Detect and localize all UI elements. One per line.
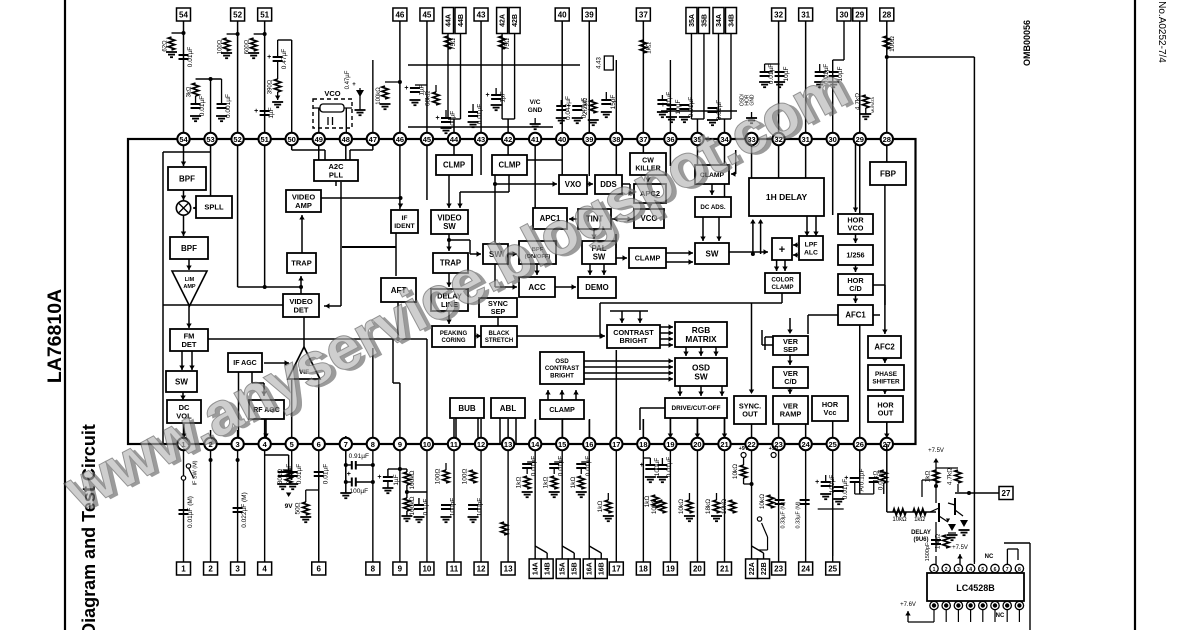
svg-text:VIDEO: VIDEO — [437, 213, 461, 222]
svg-text:PHASE: PHASE — [875, 371, 898, 378]
svg-text:0.022µF (M): 0.022µF (M) — [241, 492, 248, 528]
svg-text:SEP: SEP — [783, 345, 798, 354]
svg-text:100Ω: 100Ω — [218, 39, 224, 54]
svg-text:SHIFTER: SHIFTER — [872, 378, 900, 385]
svg-text:0.01µF: 0.01µF — [585, 456, 592, 476]
svg-text:7: 7 — [344, 440, 348, 449]
svg-text:1kΩ: 1kΩ — [516, 477, 523, 489]
svg-text:0.33µF (M): 0.33µF (M) — [796, 501, 802, 528]
svg-text:Vcc: Vcc — [824, 408, 837, 417]
svg-text:100Ω: 100Ω — [435, 469, 442, 485]
svg-text:8: 8 — [1018, 567, 1021, 573]
svg-text:44B: 44B — [458, 14, 465, 27]
svg-text:2: 2 — [945, 567, 948, 573]
svg-text:21: 21 — [720, 564, 729, 573]
svg-text:0.01µF: 0.01µF — [286, 464, 293, 484]
svg-text:OSD: OSD — [555, 358, 569, 365]
svg-text:ABL: ABL — [500, 404, 517, 413]
svg-text:1: 1 — [933, 567, 936, 573]
svg-text:10kΩ: 10kΩ — [651, 499, 658, 514]
svg-text:0.01µF: 0.01µF — [199, 96, 206, 116]
svg-text:+9V: +9V — [739, 446, 749, 452]
svg-text:NC: NC — [996, 613, 1005, 619]
svg-text:40: 40 — [558, 10, 567, 19]
svg-text:32: 32 — [774, 10, 783, 19]
svg-text:12: 12 — [477, 564, 486, 573]
svg-text:AMP: AMP — [183, 284, 196, 290]
svg-text:23: 23 — [774, 564, 783, 573]
svg-text:OUT: OUT — [742, 410, 758, 419]
svg-text:35B: 35B — [701, 14, 708, 27]
svg-text:22: 22 — [747, 440, 755, 449]
svg-text:+7.6V: +7.6V — [900, 602, 916, 608]
svg-text:2: 2 — [208, 564, 213, 573]
svg-text:PLL: PLL — [329, 170, 344, 179]
svg-text:+: + — [435, 115, 439, 122]
svg-text:68kΩ: 68kΩ — [425, 91, 432, 106]
svg-text:MURATA: MURATA — [870, 97, 875, 114]
svg-text:8: 8 — [371, 440, 375, 449]
svg-text:IF: IF — [401, 215, 407, 222]
svg-text:DELAY: DELAY — [911, 530, 931, 536]
svg-text:COLOR: COLOR — [771, 277, 794, 284]
svg-text:54: 54 — [179, 135, 188, 144]
svg-text:+9V: +9V — [769, 446, 779, 452]
svg-text:OUT: OUT — [878, 409, 894, 418]
svg-text:3: 3 — [235, 564, 240, 573]
svg-text:BRIGHT: BRIGHT — [550, 372, 574, 379]
svg-text:NC: NC — [985, 554, 994, 560]
svg-text:C/D: C/D — [849, 284, 862, 293]
svg-text:20: 20 — [693, 564, 702, 573]
svg-text:DEMO: DEMO — [585, 283, 608, 292]
svg-text:SW: SW — [706, 249, 719, 258]
svg-text:46: 46 — [395, 10, 404, 19]
svg-text:47: 47 — [369, 135, 377, 144]
svg-text:28: 28 — [882, 10, 891, 19]
svg-text:14: 14 — [531, 440, 540, 449]
svg-text:15A: 15A — [560, 562, 567, 575]
svg-text:4: 4 — [969, 567, 972, 573]
svg-text:BRIGHT: BRIGHT — [620, 336, 649, 345]
svg-text:46: 46 — [396, 135, 404, 144]
svg-text:22B: 22B — [761, 562, 768, 575]
svg-text:C/D: C/D — [784, 377, 797, 386]
svg-text:4: 4 — [262, 564, 267, 573]
svg-text:49: 49 — [315, 135, 323, 144]
svg-text:15pF: 15pF — [610, 95, 617, 110]
svg-text:44: 44 — [450, 135, 459, 144]
svg-text:0.001µF: 0.001µF — [225, 94, 232, 118]
svg-text:50Ω: 50Ω — [294, 502, 301, 514]
svg-text:25: 25 — [829, 440, 837, 449]
svg-text:0.01µF: 0.01µF — [187, 47, 194, 67]
svg-text:100kΩ: 100kΩ — [409, 470, 416, 489]
svg-text:VCO: VCO — [848, 224, 864, 233]
svg-text:SW: SW — [175, 377, 188, 386]
svg-text:+: + — [815, 479, 819, 486]
svg-text:DC ADS.: DC ADS. — [700, 204, 725, 211]
svg-text:CLAMP: CLAMP — [772, 284, 794, 291]
svg-text:48: 48 — [342, 135, 350, 144]
svg-text:52: 52 — [233, 10, 242, 19]
svg-text:100Ω: 100Ω — [889, 36, 896, 52]
svg-text:BPF: BPF — [179, 174, 195, 183]
svg-text:24: 24 — [801, 440, 810, 449]
svg-text:42: 42 — [504, 135, 512, 144]
svg-text:10: 10 — [423, 440, 431, 449]
svg-text:0.01µF: 0.01µF — [558, 456, 565, 476]
svg-text:1kΩ: 1kΩ — [644, 496, 651, 508]
svg-text:100µF: 100µF — [654, 458, 661, 477]
svg-text:BPF: BPF — [181, 244, 197, 253]
svg-text:+: + — [769, 69, 773, 76]
svg-text:8: 8 — [371, 564, 376, 573]
svg-text:TRAP: TRAP — [291, 259, 311, 268]
svg-text:FBP: FBP — [880, 169, 897, 178]
svg-text:53: 53 — [206, 135, 214, 144]
svg-text:35A: 35A — [689, 14, 696, 27]
svg-text:CLMP: CLMP — [443, 161, 465, 170]
svg-text:45: 45 — [422, 10, 431, 19]
svg-text:3: 3 — [957, 567, 960, 573]
svg-text:ALC: ALC — [804, 249, 818, 256]
svg-text:13: 13 — [504, 564, 513, 573]
svg-text:27: 27 — [1002, 489, 1011, 498]
svg-text:1/256: 1/256 — [846, 251, 864, 260]
svg-text:SW: SW — [694, 372, 708, 382]
svg-text:13: 13 — [504, 440, 512, 449]
svg-text:6: 6 — [317, 440, 321, 449]
svg-text:5: 5 — [290, 440, 294, 449]
svg-text:GND: GND — [528, 107, 543, 114]
svg-text:19: 19 — [666, 440, 674, 449]
svg-text:0.01µF (M): 0.01µF (M) — [187, 496, 194, 528]
svg-text:BLACK: BLACK — [489, 331, 511, 337]
svg-text:10: 10 — [422, 564, 431, 573]
svg-text:AMP: AMP — [295, 201, 312, 210]
svg-text:1µF: 1µF — [268, 107, 275, 118]
svg-text:100Ω: 100Ω — [462, 469, 469, 485]
svg-text:9V: 9V — [285, 503, 294, 510]
svg-text:+: + — [347, 471, 351, 478]
svg-text:V/C: V/C — [530, 99, 541, 106]
svg-text:9: 9 — [398, 440, 402, 449]
svg-text:1µF: 1µF — [500, 91, 507, 102]
svg-text:+: + — [267, 54, 271, 61]
svg-text:0.01µF: 0.01µF — [688, 97, 695, 117]
svg-text:21: 21 — [720, 440, 728, 449]
svg-text:0.47µF: 0.47µF — [281, 49, 288, 69]
svg-text:16: 16 — [585, 440, 593, 449]
svg-text:LC4528B: LC4528B — [956, 583, 995, 593]
svg-text:VCO: VCO — [324, 89, 340, 98]
svg-text:AFC1: AFC1 — [845, 311, 866, 320]
svg-text:39: 39 — [585, 135, 593, 144]
svg-text:29: 29 — [856, 135, 864, 144]
svg-text:62Ω: 62Ω — [163, 40, 169, 52]
svg-text:+: + — [844, 475, 848, 482]
svg-text:54: 54 — [179, 10, 188, 19]
svg-text:+7.5V: +7.5V — [952, 545, 968, 551]
svg-text:16A: 16A — [587, 562, 594, 575]
svg-text:100pF: 100pF — [477, 498, 484, 516]
svg-text:LPF: LPF — [805, 241, 818, 248]
svg-text:10kΩ: 10kΩ — [759, 494, 766, 509]
svg-text:1kΩ: 1kΩ — [570, 477, 577, 489]
svg-text:+: + — [567, 103, 571, 110]
svg-text:18: 18 — [639, 440, 647, 449]
svg-text:100µF: 100µF — [350, 488, 369, 495]
svg-text:5: 5 — [981, 567, 984, 573]
svg-text:14B: 14B — [545, 562, 552, 575]
svg-text:42A: 42A — [500, 14, 507, 27]
svg-text:1kΩ: 1kΩ — [597, 501, 604, 513]
svg-text:BUB: BUB — [458, 404, 476, 413]
svg-text:LIM: LIM — [185, 277, 195, 283]
svg-text:LA76810A: LA76810A — [44, 289, 66, 383]
svg-text:17: 17 — [612, 440, 620, 449]
svg-text:+: + — [661, 102, 665, 109]
svg-text:18kΩ: 18kΩ — [705, 499, 712, 514]
svg-text:1kΩ: 1kΩ — [543, 477, 550, 489]
svg-text:CORING: CORING — [442, 338, 466, 344]
svg-text:STRETCH: STRETCH — [485, 338, 513, 344]
svg-text:1: 1 — [181, 564, 186, 573]
svg-text:10kΩ: 10kΩ — [678, 499, 685, 514]
svg-text:44A: 44A — [446, 14, 453, 27]
svg-text:1kΩ: 1kΩ — [872, 471, 879, 483]
svg-text:0.01µF: 0.01µF — [666, 457, 673, 477]
svg-text:2.2kΩ: 2.2kΩ — [582, 98, 589, 115]
svg-text:+7.5V: +7.5V — [928, 448, 944, 454]
svg-text:4.43: 4.43 — [596, 57, 602, 69]
svg-text:14A: 14A — [533, 562, 540, 575]
svg-text:+: + — [486, 92, 490, 99]
svg-text:DET: DET — [294, 305, 309, 314]
svg-text:6: 6 — [994, 567, 997, 573]
svg-text:15: 15 — [558, 440, 566, 449]
svg-text:37: 37 — [639, 10, 648, 19]
svg-text:30: 30 — [840, 10, 849, 19]
svg-text:38: 38 — [612, 135, 620, 144]
svg-text:9: 9 — [398, 564, 403, 573]
svg-text:A/0.1µF: A/0.1µF — [858, 469, 865, 492]
svg-text:51: 51 — [260, 135, 268, 144]
svg-text:100kΩ: 100kΩ — [376, 87, 382, 105]
svg-text:7: 7 — [1006, 567, 1009, 573]
svg-text:CLMP: CLMP — [498, 161, 520, 170]
svg-text:12: 12 — [477, 440, 485, 449]
svg-text:25: 25 — [828, 564, 837, 573]
svg-text:1500pF: 1500pF — [925, 542, 931, 561]
svg-text:CLAMP: CLAMP — [549, 405, 575, 414]
svg-text:6: 6 — [317, 564, 322, 573]
svg-text:39: 39 — [585, 10, 594, 19]
svg-text:1kΩ: 1kΩ — [645, 42, 652, 54]
svg-text:0.01µF: 0.01µF — [296, 464, 303, 484]
svg-text:16B: 16B — [599, 562, 606, 575]
svg-text:22A: 22A — [749, 562, 756, 575]
svg-text:11: 11 — [450, 440, 458, 449]
svg-text:50: 50 — [288, 135, 296, 144]
svg-text:0.47µF: 0.47µF — [345, 70, 351, 89]
svg-text:1µF: 1µF — [393, 474, 400, 485]
svg-text:600Ω: 600Ω — [245, 39, 251, 54]
svg-text:26: 26 — [856, 440, 864, 449]
svg-text:No.A0252-7/4: No.A0252-7/4 — [1156, 1, 1167, 63]
svg-text:19: 19 — [666, 564, 675, 573]
svg-text:390Ω: 390Ω — [268, 79, 274, 94]
svg-text:+: + — [404, 85, 408, 92]
svg-text:43: 43 — [477, 10, 486, 19]
svg-text:CONTRAST: CONTRAST — [545, 365, 580, 372]
svg-text:0.1µF: 0.1µF — [422, 499, 429, 516]
svg-text:10µF: 10µF — [675, 100, 682, 115]
svg-text:18: 18 — [639, 564, 648, 573]
svg-text:+: + — [640, 462, 644, 469]
svg-text:AFC2: AFC2 — [874, 343, 895, 352]
svg-text:+: + — [377, 474, 381, 481]
svg-text:(9U6): (9U6) — [913, 537, 928, 543]
svg-text:29: 29 — [855, 10, 864, 19]
svg-text:10kΩ: 10kΩ — [721, 499, 728, 514]
svg-text:0.01µF: 0.01µF — [322, 464, 329, 484]
svg-text:1H DELAY: 1H DELAY — [766, 192, 808, 202]
svg-text:0.33µF (M): 0.33µF (M) — [781, 501, 787, 528]
svg-text:IDENT: IDENT — [394, 223, 415, 230]
svg-text:30: 30 — [829, 135, 837, 144]
svg-text:24: 24 — [801, 564, 810, 573]
svg-text:43: 43 — [477, 135, 485, 144]
svg-text:51: 51 — [260, 10, 269, 19]
svg-text:31: 31 — [801, 10, 810, 19]
svg-text:+: + — [352, 82, 356, 88]
svg-text:15B: 15B — [572, 562, 579, 575]
svg-text:0.91µF: 0.91µF — [349, 453, 369, 460]
svg-text:10kΩ: 10kΩ — [935, 534, 942, 549]
svg-text:100pF: 100pF — [450, 498, 457, 516]
svg-text:41: 41 — [531, 135, 539, 144]
svg-text:MATRIX: MATRIX — [685, 334, 717, 344]
svg-text:4.7kΩ: 4.7kΩ — [947, 468, 954, 485]
svg-text:10kΩ: 10kΩ — [732, 464, 739, 479]
svg-text:SW: SW — [443, 222, 456, 231]
svg-text:DRIVE/CUT-OFF: DRIVE/CUT-OFF — [672, 405, 721, 412]
svg-text:1kΩ: 1kΩ — [914, 517, 925, 523]
svg-text:+: + — [779, 244, 785, 256]
svg-text:+: + — [254, 108, 258, 115]
svg-text:DET: DET — [182, 340, 197, 349]
svg-text:0.01µF: 0.01µF — [531, 456, 538, 476]
svg-text:52: 52 — [233, 135, 241, 144]
svg-text:17: 17 — [612, 564, 621, 573]
svg-text:45: 45 — [423, 135, 431, 144]
svg-text:SPLL: SPLL — [204, 203, 224, 212]
svg-text:OMB00056: OMB00056 — [1022, 20, 1032, 66]
svg-text:RAMP: RAMP — [780, 410, 802, 419]
svg-text:34A: 34A — [716, 14, 723, 27]
svg-text:28: 28 — [883, 135, 891, 144]
svg-text:CLAMP: CLAMP — [635, 254, 661, 263]
svg-text:3kΩ: 3kΩ — [187, 86, 193, 97]
svg-text:75Ω: 75Ω — [504, 38, 511, 50]
svg-text:42B: 42B — [512, 14, 519, 27]
svg-text:37: 37 — [639, 135, 647, 144]
svg-text:20: 20 — [693, 440, 701, 449]
svg-text:75Ω: 75Ω — [450, 38, 457, 50]
svg-text:10kΩ: 10kΩ — [892, 517, 907, 523]
svg-text:11: 11 — [450, 564, 459, 573]
svg-text:34B: 34B — [729, 14, 736, 27]
svg-text:40: 40 — [558, 135, 566, 144]
